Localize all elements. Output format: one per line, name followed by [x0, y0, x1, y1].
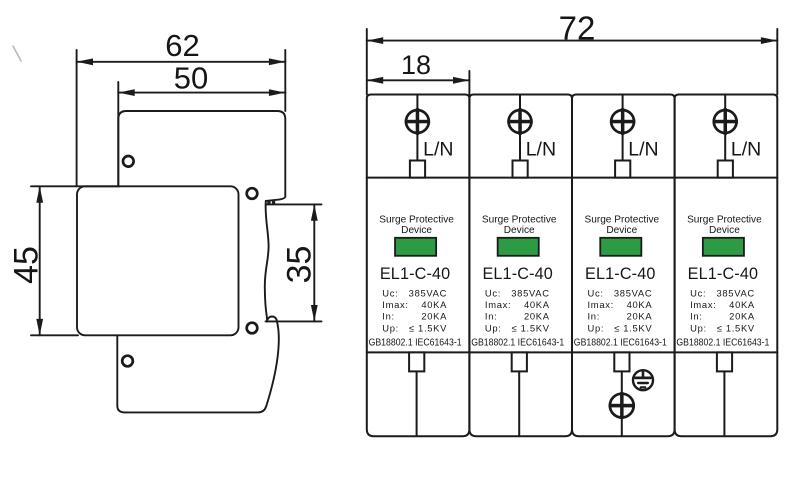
dimension 62 line — [77, 58, 286, 65]
wire bottom M1 — [416, 371, 418, 435]
svg-text:20KA: 20KA — [729, 310, 755, 321]
dimension 35 extension bottom — [266, 320, 322, 322]
screw M1 top — [405, 108, 430, 135]
svg-text:20KA: 20KA — [524, 310, 550, 321]
svg-text:In:: In: — [382, 310, 395, 321]
module 4 outline — [675, 95, 778, 437]
dimension 45 extension bottom — [31, 334, 78, 336]
svg-text:Surge Protective: Surge Protective — [482, 214, 557, 225]
rail bottom catch arch — [267, 317, 277, 322]
svg-text:EL1-C-40: EL1-C-40 — [688, 265, 758, 283]
label Surge Protective Device M2 — [482, 214, 557, 236]
dimension 72 extension line left — [366, 29, 368, 95]
upper body outline — [118, 111, 285, 201]
svg-text:≤ 1.5KV: ≤ 1.5KV — [409, 323, 447, 334]
svg-text:18: 18 — [401, 50, 431, 80]
terminal box M3 top — [615, 161, 630, 178]
module 3 group — [574, 95, 667, 435]
svg-text:≤ 1.5KV: ≤ 1.5KV — [511, 323, 549, 334]
svg-text:Up:: Up: — [588, 323, 605, 334]
svg-text:GB18802.1 IEC61643-1: GB18802.1 IEC61643-1 — [369, 336, 462, 348]
spec In M3 — [588, 310, 653, 321]
wire top M4 — [724, 95, 726, 161]
wire bottom M4 — [723, 371, 725, 435]
svg-text:Imax:: Imax: — [588, 299, 614, 310]
indicator window M4 — [703, 238, 744, 256]
svg-text:L/N: L/N — [731, 139, 761, 161]
dimension 72 extension line right — [776, 29, 778, 95]
spec Uc M2 — [485, 287, 550, 298]
svg-text:Up:: Up: — [382, 323, 399, 334]
svg-text:Surge Protective: Surge Protective — [687, 214, 762, 225]
svg-text:L/N: L/N — [526, 139, 556, 161]
wire top M3 — [622, 95, 624, 161]
right upper screw hole — [247, 188, 258, 199]
svg-text:Up:: Up: — [690, 323, 707, 334]
terminal area divider line — [367, 177, 778, 179]
svg-text:In:: In: — [485, 310, 498, 321]
svg-text:Device: Device — [606, 225, 637, 236]
svg-text:Device: Device — [401, 225, 432, 236]
indicator window M2 — [498, 238, 539, 256]
spec Up M3 — [588, 323, 653, 334]
terminal box M2 top — [513, 161, 528, 178]
dimension 50 extension line left — [117, 82, 119, 186]
spec Up M2 — [485, 323, 550, 334]
svg-text:40KA: 40KA — [627, 299, 653, 310]
upper body screw hole — [123, 156, 134, 167]
svg-text:72: 72 — [559, 10, 596, 47]
svg-text:Device: Device — [504, 225, 535, 236]
screw M4 top — [713, 108, 738, 135]
dimension 35 extension top — [266, 203, 322, 205]
lower body outline — [117, 321, 278, 412]
svg-text:20KA: 20KA — [421, 310, 447, 321]
dimension 45 line — [36, 186, 43, 335]
rail ledge squares — [267, 201, 275, 204]
wire bottom M3 — [621, 371, 623, 435]
module 3 outline — [572, 95, 675, 437]
label Surge Protective Device M1 — [379, 214, 454, 236]
label Surge Protective Device M3 — [584, 214, 659, 236]
dimension 62 extension line right — [284, 50, 286, 111]
label area bottom line — [367, 351, 778, 353]
module 2 outline — [469, 95, 572, 437]
spec Imax M2 — [485, 299, 550, 310]
svg-text:35: 35 — [281, 246, 319, 284]
svg-text:385VAC: 385VAC — [716, 287, 754, 298]
svg-text:Imax:: Imax: — [382, 299, 408, 310]
wire top M2 — [519, 95, 521, 161]
spec Uc M1 — [382, 287, 447, 298]
dimension 62 extension line left — [76, 50, 78, 186]
svg-text:≤ 1.5KV: ≤ 1.5KV — [717, 323, 755, 334]
svg-text:Uc:: Uc: — [485, 287, 501, 298]
svg-text:EL1-C-40: EL1-C-40 — [585, 265, 655, 283]
svg-text:Up:: Up: — [485, 323, 502, 334]
dimension 45 extension top — [31, 185, 119, 187]
dimension 50 line — [118, 89, 285, 96]
svg-text:Uc:: Uc: — [588, 287, 604, 298]
terminal box M4 top — [718, 161, 733, 178]
module 2 group — [471, 95, 564, 435]
svg-text:385VAC: 385VAC — [614, 287, 652, 298]
terminal box M4 bottom — [717, 352, 732, 371]
dimension 18 line — [367, 77, 470, 84]
module 1 group — [369, 95, 462, 435]
right lower screw hole — [247, 323, 258, 334]
faint scan scratch — [13, 46, 21, 61]
screw M3 top — [610, 108, 635, 135]
svg-text:GB18802.1 IEC61643-1: GB18802.1 IEC61643-1 — [471, 336, 564, 348]
dimension 35 line — [311, 204, 318, 321]
label Surge Protective Device M4 — [687, 214, 762, 236]
svg-text:L/N: L/N — [423, 139, 453, 161]
screw M3 bottom — [609, 392, 635, 419]
spec In M2 — [485, 310, 550, 321]
lower body screw hole — [122, 356, 133, 367]
dimension 18 extension line right — [468, 71, 470, 95]
svg-text:GB18802.1 IEC61643-1: GB18802.1 IEC61643-1 — [574, 336, 667, 348]
spec In M1 — [382, 310, 447, 321]
indicator window M3 — [600, 238, 641, 256]
spec Up M4 — [690, 323, 755, 334]
indicator window M1 — [395, 238, 436, 256]
screw M2 top — [507, 108, 532, 135]
svg-text:40KA: 40KA — [421, 299, 447, 310]
DIN rail surface wavy edge — [265, 201, 269, 322]
spec In M4 — [690, 310, 755, 321]
spec Uc M3 — [588, 287, 653, 298]
wire bottom M2 — [518, 371, 520, 435]
svg-text:In:: In: — [690, 310, 703, 321]
svg-text:Imax:: Imax: — [690, 299, 716, 310]
svg-text:Device: Device — [709, 225, 740, 236]
svg-text:≤ 1.5KV: ≤ 1.5KV — [614, 323, 652, 334]
wire top M1 — [416, 95, 418, 161]
module 1 outline — [367, 95, 470, 437]
svg-text:L/N: L/N — [628, 139, 658, 161]
svg-text:Uc:: Uc: — [690, 287, 706, 298]
terminal box M1 top — [410, 161, 425, 178]
svg-text:50: 50 — [174, 61, 208, 96]
svg-text:385VAC: 385VAC — [511, 287, 549, 298]
svg-text:Uc:: Uc: — [382, 287, 398, 298]
svg-text:EL1-C-40: EL1-C-40 — [380, 265, 450, 283]
svg-text:Surge Protective: Surge Protective — [584, 214, 659, 225]
terminal box M3 bottom — [614, 352, 629, 371]
svg-text:Surge Protective: Surge Protective — [379, 214, 454, 225]
spec Imax M3 — [588, 299, 653, 310]
svg-text:20KA: 20KA — [627, 310, 653, 321]
spec Imax M1 — [382, 299, 447, 310]
svg-text:EL1-C-40: EL1-C-40 — [482, 265, 552, 283]
spec Uc M4 — [690, 287, 755, 298]
terminal box M1 bottom — [409, 352, 424, 371]
spec Imax M4 — [690, 299, 755, 310]
svg-text:Imax:: Imax: — [485, 299, 511, 310]
dimension 72 line — [367, 37, 778, 44]
module 4 group — [676, 95, 769, 435]
svg-text:45: 45 — [8, 246, 46, 284]
terminal box M2 bottom — [512, 352, 527, 371]
svg-text:40KA: 40KA — [729, 299, 755, 310]
svg-text:GB18802.1 IEC61643-1: GB18802.1 IEC61643-1 — [676, 336, 769, 348]
svg-text:40KA: 40KA — [524, 299, 550, 310]
svg-text:In:: In: — [588, 310, 601, 321]
spec Up M1 — [382, 323, 447, 334]
earth symbol M3 — [633, 370, 653, 390]
svg-text:62: 62 — [165, 28, 199, 63]
main body — [77, 186, 239, 335]
svg-text:385VAC: 385VAC — [409, 287, 447, 298]
